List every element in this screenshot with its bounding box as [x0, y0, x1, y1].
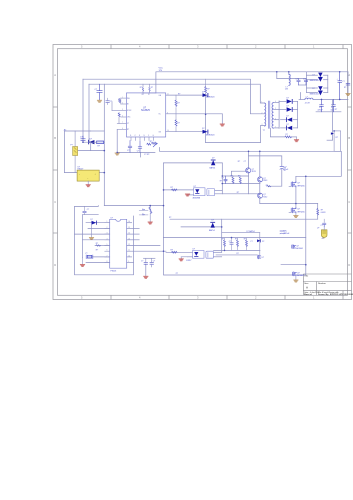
svg-text:13: 13 [128, 238, 130, 240]
inductor L output horizontal [305, 98, 313, 99]
wire bottom-left loop [75, 206, 134, 275]
wire x140.6 drop [140, 152, 142, 157]
svg-text:R?: R? [151, 87, 153, 89]
wire rectifier out vertical [297, 101, 299, 128]
resistor R left of U1 upper [119, 99, 121, 103]
resistor center tap [285, 136, 292, 138]
ground (red) opto1 [185, 194, 189, 196]
svg-text:10: 10 [284, 170, 286, 172]
wire bus C [89, 84, 265, 103]
svg-text:C?: C? [153, 261, 155, 263]
voltage reference U yellow TO-92 [321, 230, 327, 238]
ground (tan) bottom right [294, 276, 298, 282]
svg-text:2: 2 [107, 227, 108, 229]
svg-text:R?: R? [220, 181, 222, 183]
rectifier diode stack D2 [287, 107, 293, 112]
svg-text:D?: D? [212, 157, 214, 159]
svg-text:D?: D? [90, 139, 92, 141]
wire drive row1 [166, 94, 203, 96]
svg-text:S: S [139, 135, 140, 137]
wire bus B [83, 79, 265, 114]
wire long vertical x305.8 [305, 176, 307, 275]
wire VCC bus A top [156, 72, 348, 93]
wire inner loop left [83, 214, 99, 216]
wire mcu pin8 to loop [127, 262, 134, 264]
wire opto1 lower left [188, 194, 194, 196]
svg-text:R?: R? [237, 192, 239, 194]
svg-text:SG3525: SG3525 [141, 109, 150, 112]
diode BAT54 up row2 [210, 222, 215, 228]
wire yellow module right to bus [99, 172, 104, 174]
wire vertical x259.8 lower [259, 233, 261, 258]
opto U EL817 lower [193, 251, 214, 259]
wire mcu pin to opto2 long [127, 250, 166, 252]
wire snubber caps rail [277, 78, 306, 80]
transistor Q2 [258, 177, 263, 182]
ground (red) center tap [296, 137, 298, 140]
capacitor 47uF mid right [280, 166, 284, 169]
capacitor cluster c1 [224, 176, 227, 184]
wire opto2 out upper [214, 251, 222, 253]
wire u1 ground chain [116, 130, 118, 153]
diode D drive row2 solid [203, 130, 209, 134]
wire between q2 q3 [259, 182, 261, 193]
svg-text:D?: D? [287, 124, 289, 126]
resistor sense [317, 209, 319, 216]
resistor cluster r2 [239, 177, 241, 183]
svg-text:R?: R? [235, 239, 237, 241]
resistor network box right [334, 131, 341, 151]
svg-text:15: 15 [128, 227, 130, 229]
svg-text:D?: D? [212, 220, 214, 222]
svg-text:C?: C? [303, 78, 305, 80]
svg-text:JC817: JC817 [186, 260, 191, 262]
svg-text:3: 3 [107, 233, 108, 235]
svg-text:A: A [306, 286, 308, 290]
svg-text:R?: R? [140, 87, 142, 89]
svg-text:Sheet of: Sheet of [304, 293, 312, 296]
diode D drive row1 solid [203, 93, 209, 97]
transformer T1 secondary winding [272, 103, 274, 129]
svg-text:RT: RT [127, 129, 129, 131]
wire q1 collector [248, 151, 250, 168]
fuse F yellow [73, 131, 78, 173]
svg-text:8: 8 [107, 261, 108, 263]
capacitor snubber 2 [304, 79, 307, 86]
svg-text:BAT54: BAT54 [209, 229, 215, 232]
svg-text:5: 5 [107, 244, 108, 246]
wire bottom bus y275 [164, 238, 306, 275]
svg-text:R?: R? [177, 122, 179, 124]
ground (tan) mcu left [89, 225, 93, 240]
resistor vertical between mid and row2 [175, 114, 177, 132]
svg-text:R?: R? [238, 161, 240, 163]
wire secondary vertical x279.1 [278, 101, 280, 129]
svg-text:PS223: PS223 [111, 271, 117, 273]
svg-text:0.05R: 0.05R [321, 212, 326, 214]
svg-text:C?: C? [110, 101, 112, 103]
svg-text:16: 16 [128, 221, 130, 223]
resistor vertical between row1 and mid [175, 95, 177, 114]
svg-text:D?: D? [287, 116, 289, 118]
resistor R above U1 pin 13 [149, 87, 151, 91]
wire q1 branch [231, 171, 245, 176]
svg-text:D: D [348, 263, 350, 267]
svg-text:4N35WB: 4N35WB [193, 198, 201, 200]
resistor opto2 feed [172, 251, 178, 253]
title block [303, 274, 351, 295]
svg-text:BAT54: BAT54 [210, 167, 216, 170]
svg-text:C?: C? [222, 178, 224, 180]
wire bus y219.2 [170, 218, 318, 220]
svg-text:R?: R? [238, 175, 240, 177]
svg-text:C?: C? [244, 161, 246, 163]
svg-text:C?: C? [296, 78, 298, 80]
diode small lower mid [257, 239, 261, 242]
svg-text:4.7uH: 4.7uH [305, 102, 310, 104]
resistor cluster2 r2 [237, 238, 239, 251]
rectifier diode stack D3 [286, 117, 292, 122]
inductor choke vertical top right [289, 74, 290, 85]
ground (tan) under top-left capacitor [97, 100, 101, 102]
potentiometer R with arrow [152, 142, 158, 147]
svg-text:MBR20100: MBR20100 [310, 80, 319, 82]
bridge module U yellow [77, 170, 99, 181]
wire left vertical x83 [82, 79, 84, 142]
svg-text:CM: CM [285, 89, 288, 91]
wire fuse row [78, 150, 104, 152]
wire cluster bottom h y183.5 [222, 183, 260, 185]
regulator bottom right on bus [293, 272, 297, 276]
wire y232.6 lower mid [222, 232, 260, 234]
wire opto1 out lower y193.8 [215, 193, 261, 195]
wire vertical x205.6 [205, 95, 207, 143]
svg-text:C?: C? [229, 241, 231, 243]
transistor Q1 [246, 168, 251, 173]
capacitors under U1 bottom pins [128, 141, 142, 153]
capacitor snubber 1 [297, 79, 300, 86]
svg-text:C?: C? [137, 151, 139, 153]
svg-text:9012: 9012 [263, 196, 267, 198]
ground (tan) right output [346, 94, 350, 96]
svg-text:9: 9 [128, 261, 129, 263]
svg-text:D?: D? [313, 74, 315, 76]
opto U 4N35 upper [194, 188, 215, 196]
wire rect top rails [306, 72, 308, 93]
svg-text:D: D [54, 263, 56, 267]
svg-text:D?: D? [287, 97, 289, 99]
ground (red) mcu bottom left [80, 258, 84, 267]
svg-text:MBR20100: MBR20100 [310, 94, 319, 96]
svg-text:11: 11 [167, 94, 169, 96]
svg-text:MBR0520: MBR0520 [206, 134, 214, 136]
capacitor 470uF right bottom [280, 231, 284, 234]
wire diode stack feeds [279, 100, 286, 102]
ground (tan) under mosfet lower [294, 213, 298, 218]
svg-text:431: 431 [322, 238, 325, 240]
svg-text:4: 4 [107, 238, 108, 240]
ground (red) usb [144, 276, 148, 278]
wire rc cluster bottom y250.4 [214, 249, 261, 251]
op-amp U1 PWM controller box [127, 93, 166, 137]
wire out cap right [347, 72, 349, 94]
usb series components [144, 258, 154, 267]
capacitor top of inner loop [83, 206, 86, 214]
resistor pull-up above x205.6 [205, 79, 207, 95]
svg-text:R?: R? [222, 239, 224, 241]
capacitor input electrolytic left [81, 136, 85, 142]
svg-text:6: 6 [107, 250, 108, 252]
svg-text:470uF: 470uF [318, 109, 324, 111]
mosfet Q upper [289, 182, 296, 188]
ground (red) mid drive [220, 124, 224, 126]
svg-text:AO3401: AO3401 [297, 274, 304, 277]
wire out filter rail [299, 98, 305, 100]
svg-text:L?: L? [306, 97, 308, 99]
transformer T1 primary winding [265, 103, 266, 126]
svg-text:C?: C? [87, 209, 89, 211]
svg-text:470uF: 470uF [284, 233, 290, 235]
wire y254.9 lower mid [216, 254, 257, 256]
svg-text:R?: R? [237, 253, 239, 255]
resistor divider mid drop [149, 207, 152, 213]
svg-text:U?: U? [111, 217, 113, 219]
wire zener row [83, 141, 97, 143]
svg-text:R?: R? [286, 134, 288, 136]
svg-text:C?: C? [342, 81, 344, 83]
svg-text:14: 14 [128, 233, 130, 235]
svg-text:R?: R? [178, 93, 180, 95]
svg-text:104: 104 [331, 109, 334, 111]
svg-text:C: C [348, 200, 350, 204]
svg-text:R?: R? [207, 89, 209, 91]
svg-text:U?: U? [262, 257, 264, 259]
capacitor filter 1 [320, 99, 324, 111]
wire y155.9 to cap47 [249, 156, 282, 166]
wire diode stack outputs [293, 100, 297, 102]
ground (tan) under U1 pin chain [115, 153, 119, 155]
svg-text:D?: D? [262, 241, 264, 243]
capacitor C left of U1 [106, 98, 110, 104]
svg-text:R?: R? [244, 239, 246, 241]
svg-text:10: 10 [128, 255, 130, 257]
svg-text:U?: U? [193, 249, 195, 251]
wire cluster vertical x222.3 [221, 163, 223, 194]
wire transformer secondary stubs [274, 102, 279, 104]
resistor cluster2 r1 [224, 238, 226, 251]
dual schottky diode pair bottom [318, 86, 322, 95]
svg-text:MBR0520: MBR0520 [206, 97, 214, 99]
wire bus y226.9 [181, 226, 222, 228]
wire vertical x221.7 [221, 219, 223, 252]
wire sense resistor stubs [317, 204, 319, 209]
svg-text:12: 12 [128, 244, 130, 246]
svg-text:11: 11 [128, 250, 130, 252]
resistor R left of U1 lower [118, 113, 120, 117]
svg-text:Y?: Y? [85, 253, 87, 255]
wire input loop left [64, 131, 90, 173]
sheet border frame [53, 45, 352, 300]
wire U1 row y92.9 [143, 92, 156, 94]
ground (red) under bridge [86, 181, 90, 187]
wire q2q3 vertical [259, 151, 261, 177]
svg-text:R?: R? [171, 249, 173, 251]
wire vertical x104 [103, 84, 105, 205]
svg-text:D?: D? [287, 106, 289, 108]
svg-text:14: 14 [167, 130, 169, 132]
svg-text:R?: R? [169, 217, 171, 219]
svg-text:IRF3205: IRF3205 [297, 185, 304, 187]
svg-text:C?: C? [80, 136, 82, 138]
wire choke top stub [288, 72, 290, 74]
wire secondary center tap to ground [270, 128, 285, 137]
svg-text:U?: U? [317, 227, 319, 229]
svg-text:C: C [54, 200, 56, 204]
svg-text:F?: F? [71, 145, 73, 147]
svg-text:R?: R? [98, 146, 100, 148]
svg-text:R?: R? [336, 137, 338, 139]
resistor cluster r1 [232, 177, 234, 183]
capacitor output bulk [338, 72, 342, 100]
rectifier diode stack D1 [287, 99, 293, 104]
svg-text:P?: P? [176, 273, 178, 275]
wire mcu pin rows [88, 227, 110, 229]
svg-text:D? BAT54: D? BAT54 [247, 230, 255, 233]
capacitor filter 2 [332, 99, 336, 111]
svg-text:R?: R? [335, 109, 337, 111]
wire y203.5 [260, 203, 318, 205]
regulator transistor mid-bottom right [292, 245, 296, 249]
transistor Q3 [258, 193, 263, 198]
svg-text:OB: OB [159, 132, 161, 134]
svg-text:Number: Number [318, 282, 326, 285]
wire opto2 out lower [214, 256, 222, 258]
wire mosfet mid vertical [295, 187, 297, 208]
wire q1 emitter down [248, 173, 250, 194]
svg-text:7: 7 [107, 255, 108, 257]
wire filter bottom rail [316, 111, 341, 113]
wire mcu pin1 row [86, 222, 110, 224]
mcu pin numbers [107, 221, 131, 263]
svg-text:B: B [54, 136, 56, 140]
svg-text:R?: R? [231, 175, 233, 177]
resistor mcu row [96, 245, 101, 247]
wire usb pair cluster [144, 257, 156, 259]
ground (red) under divider [148, 222, 152, 224]
wire transformer primary bottom return [206, 126, 265, 143]
wire left vertical x89 [88, 84, 90, 142]
svg-text:Drawn By: E\DCDC-ATX12V-200W.S: Drawn By: E\DCDC-ATX12V-200W.Sch [318, 293, 353, 296]
svg-text:C?: C? [127, 150, 129, 152]
connector/mcu U bottom-left DIP [110, 219, 127, 268]
resistor opto1 feed [172, 189, 178, 191]
svg-text:R?: R? [96, 243, 98, 245]
resistor cluster2 r3 [246, 238, 248, 251]
svg-text:R?: R? [171, 187, 173, 189]
capacitor cluster2 c1 [230, 238, 233, 251]
svg-text:CT: CT [127, 123, 129, 125]
wire mid box left vertical [163, 163, 165, 238]
svg-text:R?: R? [177, 103, 179, 105]
wire cap47 lower [268, 169, 282, 186]
zener small right [331, 132, 334, 134]
svg-text:B: B [348, 136, 350, 140]
diode at mcu pin1 [92, 221, 97, 225]
svg-text:A: A [348, 73, 350, 77]
svg-text:R?: R? [150, 141, 152, 143]
wire cluster top h y176 [222, 175, 248, 177]
svg-text:D?: D? [202, 92, 204, 94]
svg-text:D?: D? [91, 219, 93, 221]
svg-text:IRF3205: IRF3205 [297, 211, 304, 213]
resistor input horizontal [97, 141, 104, 144]
svg-text:9013: 9013 [263, 180, 267, 182]
wire stub to mid ground [221, 114, 223, 124]
wire coupling y205.6 [104, 205, 163, 207]
svg-text:C?: C? [321, 225, 323, 227]
wire mid box bottom y237.6 [164, 237, 306, 239]
transformer T1 core [268, 101, 270, 128]
diode BAT54 up row1 [211, 160, 216, 166]
wire u1 bottom row [117, 151, 155, 153]
U1 pin stubs [112, 84, 222, 140]
svg-text:RS207: RS207 [78, 169, 84, 171]
wire opto1 feed [164, 189, 194, 191]
svg-text:D?: D? [313, 88, 315, 90]
regulator small lower mid [257, 255, 260, 259]
rectifier diode stack D4 [286, 126, 292, 131]
capacitor C top-left at VCC [97, 84, 102, 100]
svg-text:AO3401: AO3401 [296, 247, 303, 250]
svg-text:C?: C? [250, 241, 252, 243]
U1 pin name marks [127, 94, 162, 137]
crystal Y [86, 255, 93, 259]
wire opto2 lower left [188, 256, 193, 258]
small cap above reference [323, 223, 326, 227]
wire drive row2 [166, 131, 203, 133]
svg-text:1: 1 [107, 221, 108, 223]
svg-text:D?: D? [202, 128, 204, 130]
wire feedback drop right [332, 99, 334, 140]
svg-text:U?: U? [194, 186, 196, 188]
svg-text:R?: R? [96, 250, 98, 252]
ground (red) opto2 [179, 257, 183, 261]
opto LED triangle [195, 189, 199, 194]
wire right bottom y264.7 [281, 264, 306, 266]
svg-text:C? R?: C? R? [144, 154, 149, 156]
opto2 LED triangle [194, 252, 198, 257]
wire snubber drop [276, 72, 278, 79]
svg-text:9013: 9013 [252, 171, 256, 173]
svg-text:A: A [54, 73, 56, 77]
zener diode input [88, 140, 94, 145]
svg-text:R?: R? [344, 87, 346, 89]
mosfet Q lower [289, 208, 296, 214]
wire q3 down [259, 198, 261, 203]
wire mcu right pins out [127, 222, 132, 224]
wire mid box top y162.9 [164, 162, 223, 164]
wire opto1 out upper [215, 190, 223, 192]
capacitor far right [346, 83, 350, 85]
wire mosfet drain drop [295, 176, 297, 181]
wire rect right rails [324, 74, 328, 76]
wire bus1 y151.3 [160, 148, 342, 177]
resistor R above U1 pin 15 [142, 87, 144, 91]
svg-text:S: S [144, 135, 145, 137]
mcu pin stubs [105, 223, 110, 263]
svg-text:C?: C? [141, 261, 143, 263]
wire opto2 feed [166, 251, 193, 253]
